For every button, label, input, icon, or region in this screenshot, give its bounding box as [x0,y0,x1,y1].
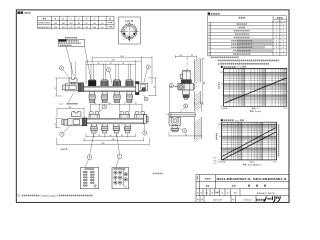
svg-text:*1): *1) [17,195,20,197]
balloon 8 [184,104,188,108]
svg-text:16.7: 16.7 [283,108,286,110]
outlet 4 (upper view) [126,91,132,102]
side valve knurl [181,80,191,84]
side view right dim [201,59,204,104]
lower view left socket [62,119,68,125]
svg-text:*: * [216,60,217,62]
centerlines [120,22,139,41]
svg-text:50: 50 [110,63,112,65]
graph 2 plot [222,122,277,160]
svg-text:116: 116 [69,23,72,25]
balloon 1 [106,68,110,72]
lower view left union nut [82,118,87,126]
svg-text:100: 100 [218,124,221,126]
svg-text:50: 50 [121,135,123,137]
leaders to stickers [90,133,94,155]
outlet 1 (lower view) [91,124,98,133]
side valve tab [180,74,183,79]
svg-text:305: 305 [121,56,124,58]
upper view right end flange [135,82,147,95]
svg-text:0.1(0.001): 0.1(0.001) [218,162,226,164]
side body centerline [169,86,198,88]
svg-text:2: 2 [283,34,284,36]
side valve outlet [183,90,190,99]
title block text [197,176,198,177]
lower view top dim [57,107,84,118]
svg-text:1: 1 [276,54,277,56]
svg-text:1: 1 [283,27,284,29]
balloon 3 [146,65,150,69]
shaded spec cells [237,39,273,42]
svg-text:2012.6.6: 2012.6.6 [243,200,252,202]
svg-text:100: 100 [220,72,223,74]
svg-text:176: 176 [69,27,72,29]
svg-text:62: 62 [86,23,88,25]
svg-text:(L/min): (L/min) [255,111,261,113]
svg-text:45: 45 [135,103,137,105]
note block box [58,39,84,46]
svg-text:1/2: 1/2 [205,193,208,195]
balloon 2 [59,66,63,70]
svg-text:3: 3 [209,30,210,32]
svg-text:5: 5 [209,37,210,39]
svg-text:1: 1 [276,24,277,26]
wall section hatch (lower) [194,102,201,139]
graph 2 title [221,119,223,121]
valve knob 4 (upper view) [126,80,134,87]
svg-text:SFH-BKOP367-6, SFH-BHKP367-6: SFH-BKOP367-6, SFH-BHKP367-6 [217,178,288,181]
svg-text:130: 130 [62,23,65,25]
svg-text:4: 4 [283,44,284,46]
sticker B [112,168,129,189]
svg-text:2.5: 2.5 [257,108,259,110]
upper view left valve: body [65,84,78,91]
svg-text:1: 1 [283,54,284,56]
svg-text:310: 310 [54,27,57,29]
parts table title [208,12,210,14]
upper view left valve: union nut [78,83,84,92]
svg-text:50: 50 [122,63,124,65]
side view top dim [175,55,196,60]
svg-text:1: 1 [222,95,223,97]
graph 2 corner small labels [214,158,218,166]
outlet 2 (upper view) [101,91,107,102]
svg-text:4: 4 [283,40,284,42]
svg-text:10(0.1): 10(0.1) [249,162,255,164]
svg-text:2001.1/22: 2001.1/22 [213,200,223,202]
page border frame [16,10,289,203]
svg-text:100: 100 [93,27,96,29]
svg-text:40: 40 [93,23,95,25]
svg-text:250: 250 [54,23,57,25]
mounting rail (section) [169,113,195,117]
lower view right end cap [144,115,149,124]
svg-text:122: 122 [85,27,88,29]
svg-text:7: 7 [209,50,210,52]
svg-text:156: 156 [77,27,80,29]
side valve stem [183,70,191,80]
svg-text:50: 50 [97,63,99,65]
balloon 2s [169,84,173,88]
svg-text:6: 6 [209,47,210,49]
svg-text:16.7: 16.7 [273,162,276,164]
svg-text:kPa: kPa [214,158,217,160]
graph 1 curve [225,78,287,103]
svg-text:1: 1 [276,27,277,29]
svg-text:190: 190 [62,27,65,29]
outlet 1 (upper view) [89,91,95,102]
hole marks [123,33,125,35]
svg-text:50: 50 [110,135,112,137]
svg-text:1: 1 [276,34,277,36]
svg-text:163: 163 [204,82,206,85]
side view centerline [186,57,188,100]
section outlet [171,126,179,132]
svg-text:1: 1 [220,148,221,150]
left dim vertical (lower) [55,119,63,128]
svg-text:4: 4 [283,47,284,49]
balloon 10 [183,129,187,133]
svg-text:1: 1 [276,37,277,39]
svg-text:4: 4 [276,44,277,46]
svg-text:96: 96 [78,23,80,25]
svg-text:150kPa(1.5kgf/cm²): 150kPa(1.5kgf/cm²) [41,194,59,197]
detail view frame [119,17,141,44]
balloon below flange [144,97,148,101]
valve knob 3 (upper view) [113,80,121,87]
svg-text:1: 1 [283,24,284,26]
svg-text:80: 80 [185,134,187,136]
svg-text::NPW: :NPW [24,11,32,15]
svg-text:4: 4 [276,40,277,42]
stamp note above title block [153,173,154,174]
svg-text:50: 50 [101,23,103,25]
svg-text:75: 75 [124,103,126,105]
lower view left valve: body [68,119,83,126]
upper view left valve: neck [71,82,75,84]
svg-text:6: 6 [209,40,210,42]
upper view dim texts [97,56,124,65]
lower section bottom dim [169,132,201,136]
clips top dim row [91,104,143,113]
arrow marks last col [108,22,112,27]
noritz logo [264,197,280,202]
upper view dimension lines [86,57,152,84]
wall mount clip [89,112,99,119]
outlet 3 (upper view) [114,91,120,102]
parts table rows [209,24,284,56]
wall section hatch (upper) [194,59,200,104]
svg-text:8: 8 [209,54,210,56]
svg-text:250: 250 [112,60,115,62]
svg-text:2: 2 [209,27,210,29]
svg-text:1: 1 [283,50,284,52]
svg-text:150: 150 [108,103,111,105]
note block caption [65,37,66,38]
svg-text:SFH-BHKP367-6: SFH-BHKP367-6 [38,27,50,29]
svg-text:1: 1 [209,24,210,26]
sticker B content [113,168,127,184]
svg-text:MH-E?-3678: MH-E?-3678 [257,193,276,195]
svg-text:1.0(0.01): 1.0(0.01) [221,108,228,110]
valve knob 2 (upper view) [101,80,109,87]
section centerline [167,114,197,116]
wall mount clip [119,112,129,119]
svg-text:SFH-BKOP367-6: SFH-BKOP367-6 [38,23,50,25]
inter-view vertical line [169,87,171,113]
svg-text:107: 107 [69,107,72,109]
svg-text:50.5: 50.5 [179,55,182,57]
balloon 5 [143,131,147,135]
svg-text:1: 1 [276,50,277,52]
graph 1 plot [224,68,287,106]
balloon 7 [117,154,122,159]
svg-text:54: 54 [55,124,57,126]
upper manifold bar left flange lines [85,86,86,91]
outlet 4 (lower view) [124,124,131,133]
svg-text:(L/min)(kgf/cm²): (L/min)(kgf/cm²) [248,163,262,166]
upper view left valve: handle [69,78,77,82]
sticker A content [83,168,96,186]
wall mount clip [135,112,145,119]
graph 2 curves [222,128,276,157]
svg-text:10: 10 [221,84,223,86]
lower manifold bar [84,118,144,124]
svg-text:50: 50 [101,27,103,29]
handle extension lines [72,62,75,78]
graph 1 axis labels [220,72,287,110]
lower dim texts [98,135,123,145]
svg-text:50: 50 [98,135,100,137]
svg-text:33: 33 [191,55,193,57]
top-left classification label [17,11,20,14]
svg-text:SFH-BHKP367-6: SFH-BHKP367-6 [279,21,288,23]
balloon 4 [60,132,64,136]
svg-text:3-φ6: 3-φ6 [125,20,131,23]
parts table [208,16,287,56]
left dim tick [55,78,69,96]
svg-text:95: 95 [154,86,156,88]
outlet 2 (lower view) [101,124,108,133]
svg-text:1: 1 [276,30,277,32]
sticker A [81,168,99,189]
svg-text:4: 4 [209,34,210,36]
right end vertical dim [148,78,157,96]
svg-text:2: 2 [283,37,284,39]
knob top-view circle [122,24,137,39]
balloon 9 (bracket) [102,105,106,109]
svg-text:*: * [208,57,209,59]
valve knob 1 (upper view) [88,79,96,86]
graph 2 axis labels [218,124,277,164]
svg-text:250: 250 [112,139,115,141]
lower view dims below [57,133,150,145]
svg-text:30: 30 [94,103,96,105]
dimension table [37,16,114,29]
leaders from note [66,46,74,76]
parts table header text [239,17,241,19]
graph 2 side note (vertical) [278,125,279,126]
graph 1 title [221,66,223,68]
balloon 6 [87,155,92,160]
svg-text:2: 2 [283,30,284,32]
svg-text:320: 320 [102,143,105,145]
manifold section body [169,117,181,126]
svg-text:4: 4 [276,47,277,49]
title block [196,175,289,203]
outlet 3 (lower view) [113,124,120,133]
upper manifold bar [84,86,142,91]
side valve body [178,84,195,91]
svg-text:44: 44 [55,88,57,90]
upper view left stub [63,85,66,90]
svg-text:10: 10 [219,136,221,138]
svg-text:6: 6 [209,44,210,46]
lower view left valve: handle [72,112,82,117]
